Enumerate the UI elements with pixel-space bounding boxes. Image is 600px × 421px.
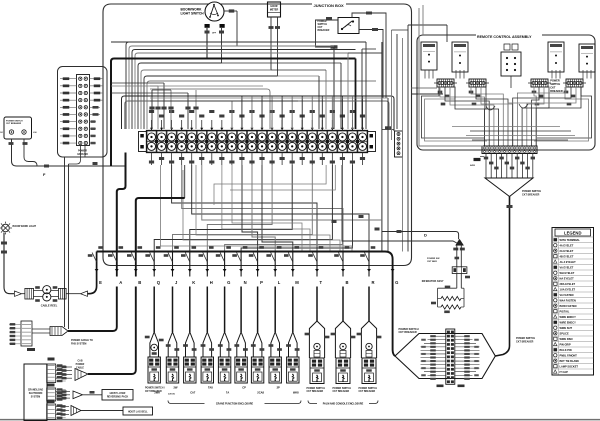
svg-text:POWER SWITCH: POWER SWITCH bbox=[333, 388, 352, 390]
svg-text:TA8: TA8 bbox=[208, 386, 213, 390]
svg-text:G: G bbox=[227, 280, 230, 285]
svg-text:H: H bbox=[210, 280, 213, 285]
svg-text:HOIST LAG BELL: HOIST LAG BELL bbox=[128, 411, 148, 414]
svg-text:CKT BKR: CKT BKR bbox=[427, 261, 437, 263]
svg-text:T: T bbox=[320, 280, 323, 285]
svg-text:CKT BREAKER: CKT BREAKER bbox=[359, 390, 376, 393]
svg-text:POWER SW: POWER SW bbox=[427, 258, 440, 260]
svg-text:LEGEND: LEGEND bbox=[564, 231, 581, 236]
svg-text:G: G bbox=[395, 280, 398, 285]
svg-text:CABLE REEL: CABLE REEL bbox=[41, 304, 58, 308]
svg-text:GROUND: GROUND bbox=[77, 153, 88, 156]
svg-text:PIGTAIL: PIGTAIL bbox=[560, 309, 570, 313]
svg-text:L: L bbox=[278, 280, 281, 285]
svg-text:CRANE/LOAD: CRANE/LOAD bbox=[28, 389, 44, 392]
svg-text:BOOM WORK LIGHT: BOOM WORK LIGHT bbox=[13, 225, 37, 228]
svg-text:R: R bbox=[372, 280, 375, 285]
svg-text:VA EYELET: VA EYELET bbox=[560, 265, 574, 269]
svg-text:CAB: CAB bbox=[78, 360, 83, 363]
svg-text:VA FASTEN: VA FASTEN bbox=[560, 293, 574, 297]
svg-text:BREAKER: BREAKER bbox=[550, 90, 563, 93]
svg-text:WA8: WA8 bbox=[293, 391, 299, 395]
svg-text:PNBL F/MONT: PNBL F/MONT bbox=[560, 353, 578, 357]
svg-text:CKT BREAKER: CKT BREAKER bbox=[516, 341, 534, 344]
svg-text:SHUTDOWN: SHUTDOWN bbox=[29, 393, 43, 395]
svg-text:POWER SWITCH /: POWER SWITCH / bbox=[145, 388, 165, 390]
svg-text:WIRE ENDCY: WIRE ENDCY bbox=[560, 315, 577, 319]
svg-text:22KVA: 22KVA bbox=[168, 393, 175, 396]
svg-text:N: N bbox=[244, 280, 247, 285]
svg-text:2CA8: 2CA8 bbox=[257, 391, 264, 395]
svg-text:BREAKER: BREAKER bbox=[318, 29, 330, 32]
svg-text:CKT BREAKER: CKT BREAKER bbox=[333, 390, 350, 393]
svg-text:P: P bbox=[260, 280, 263, 285]
svg-text:WIRE DISC: WIRE DISC bbox=[560, 337, 574, 341]
svg-text:W4A FASTEN: W4A FASTEN bbox=[560, 298, 576, 302]
svg-text:WIRE ENDCY: WIRE ENDCY bbox=[560, 320, 577, 324]
svg-text:CA7: CA7 bbox=[190, 391, 196, 395]
svg-text:POWER SWITCH: POWER SWITCH bbox=[359, 388, 378, 390]
svg-text:FHB SYSTEM: FHB SYSTEM bbox=[71, 343, 86, 346]
svg-text:D: D bbox=[424, 233, 427, 238]
svg-text:2W: 2W bbox=[174, 386, 178, 390]
svg-text:BOW FASTEN: BOW FASTEN bbox=[560, 304, 577, 308]
svg-text:POWER SWITCH: POWER SWITCH bbox=[307, 388, 326, 390]
svg-text:NA EYELET: NA EYELET bbox=[560, 276, 575, 280]
svg-text:OFF: OFF bbox=[212, 33, 217, 35]
svg-text:ARM: ARM bbox=[470, 164, 475, 167]
svg-text:LAMP SOCKET: LAMP SOCKET bbox=[560, 364, 579, 368]
svg-text:M: M bbox=[295, 280, 299, 285]
svg-text:1UA EYELET: 1UA EYELET bbox=[560, 287, 576, 291]
svg-text:REMOTE CONTROL ASSEMBLY: REMOTE CONTROL ASSEMBLY bbox=[477, 35, 532, 39]
svg-text:JUNCTION BOX: JUNCTION BOX bbox=[314, 3, 345, 8]
svg-text:SPLICE: SPLICE bbox=[560, 331, 570, 335]
svg-text:K: K bbox=[192, 280, 195, 285]
svg-text:B: B bbox=[346, 280, 349, 285]
svg-text:WH EYELET: WH EYELET bbox=[560, 271, 575, 275]
svg-text:WITH TERMINAL: WITH TERMINAL bbox=[560, 238, 581, 242]
svg-text:CKT BREAKER: CKT BREAKER bbox=[307, 390, 324, 393]
svg-text:7A: 7A bbox=[226, 391, 229, 395]
svg-text:JA-4 EYELET: JA-4 EYELET bbox=[560, 260, 577, 264]
svg-text:POWER SWITCH: POWER SWITCH bbox=[6, 121, 23, 123]
svg-text:CKT BREAKER: CKT BREAKER bbox=[522, 194, 540, 197]
svg-text:POWER: POWER bbox=[76, 364, 85, 366]
svg-text:A: A bbox=[119, 280, 122, 285]
svg-text:2RA EYELET: 2RA EYELET bbox=[560, 282, 576, 286]
svg-text:LSO: LSO bbox=[0, 132, 3, 134]
svg-text:BKT TIE BLANK: BKT TIE BLANK bbox=[560, 359, 580, 363]
svg-text:2P: 2P bbox=[277, 386, 280, 390]
svg-text:INFERATOR ASSY: INFERATOR ASSY bbox=[422, 280, 444, 283]
svg-text:WIRE NUT: WIRE NUT bbox=[560, 326, 573, 330]
svg-text:METER: METER bbox=[270, 9, 279, 12]
svg-text:LIGHT SWITCH: LIGHT SWITCH bbox=[181, 12, 205, 16]
svg-text:CP: CP bbox=[242, 386, 246, 390]
svg-text:CKT BREAKER: CKT BREAKER bbox=[399, 331, 417, 334]
svg-text:CRANE FUNCTION ENCLOSURE: CRANE FUNCTION ENCLOSURE bbox=[216, 403, 254, 406]
svg-text:CKT BREAKER: CKT BREAKER bbox=[145, 390, 162, 393]
svg-text:BULK PIN: BULK PIN bbox=[560, 348, 572, 352]
svg-text:SYSTEM: SYSTEM bbox=[31, 397, 41, 399]
svg-text:PALM AND CONSOLE ENCLOSURE: PALM AND CONSOLE ENCLOSURE bbox=[323, 403, 364, 406]
svg-text:B: B bbox=[138, 280, 141, 285]
svg-text:E: E bbox=[99, 280, 102, 285]
svg-text:PIN GRIP: PIN GRIP bbox=[560, 342, 571, 346]
svg-text:IT CAP: IT CAP bbox=[560, 370, 569, 374]
svg-text:REVERSING PACK: REVERSING PACK bbox=[107, 396, 129, 399]
svg-text:CKT BREAKER: CKT BREAKER bbox=[6, 122, 22, 125]
svg-text:2A EYELET: 2A EYELET bbox=[560, 249, 574, 253]
svg-text:4B EYELET: 4B EYELET bbox=[560, 254, 574, 258]
svg-text:4A EYELET: 4A EYELET bbox=[560, 243, 574, 247]
